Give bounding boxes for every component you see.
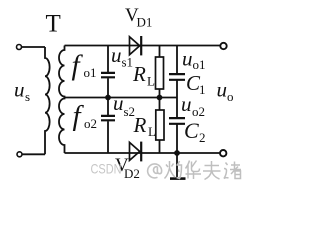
capacitor C1 column wires: [176, 46, 178, 98]
wire top rail: [65, 45, 221, 47]
capacitor us2 plates: [101, 116, 115, 120]
resistor RL top column wire: [159, 46, 161, 98]
capacitor us1 column wires: [107, 46, 109, 98]
svg-text:2: 2: [199, 130, 206, 145]
capacitor C1 plates: [169, 74, 185, 80]
svg-text:T: T: [46, 11, 61, 38]
svg-text:u: u: [14, 78, 25, 102]
diode VD2 triangle: [130, 142, 140, 160]
wire primary top: [22, 46, 45, 48]
terminal top-left: [17, 45, 22, 50]
resistor RL bottom box: [156, 110, 164, 140]
wire primary bottom: [22, 153, 45, 155]
svg-text:u: u: [113, 91, 124, 115]
ground stem: [176, 153, 178, 178]
junction dot center-tap column: [105, 95, 111, 101]
capacitor us1 plates: [101, 73, 115, 77]
diode VD1 cathode bar: [140, 36, 142, 55]
watermark char fu: [203, 161, 221, 180]
svg-text:R: R: [132, 62, 146, 86]
watermark char zhu: [224, 162, 241, 179]
junction dot C2 bottom: [174, 150, 180, 156]
svg-text:o2: o2: [84, 116, 97, 131]
wire bottom rail: [65, 152, 221, 154]
resistor RL top box: [156, 57, 164, 89]
diode VD2 cathode bar: [140, 142, 142, 162]
svg-text:o2: o2: [192, 104, 205, 119]
watermark at-sign: [148, 164, 162, 178]
watermark char hua: [186, 161, 202, 180]
transformer primary winding: [45, 47, 50, 154]
svg-text:o: o: [227, 89, 234, 104]
svg-text:s1: s1: [122, 55, 134, 70]
terminal bottom-left: [17, 152, 22, 157]
svg-text:CSDN: CSDN: [91, 161, 122, 177]
wire center rail: [65, 97, 178, 99]
diode VD1 triangle: [130, 37, 140, 55]
svg-text:L: L: [147, 74, 155, 89]
svg-text:L: L: [148, 124, 156, 139]
svg-text:D1: D1: [137, 15, 153, 30]
svg-text:u: u: [181, 92, 192, 116]
transformer secondary winding fo1: [59, 46, 65, 98]
capacitor us2 column wires: [107, 98, 109, 154]
svg-text:D2: D2: [124, 166, 140, 181]
svg-text:C: C: [184, 118, 199, 143]
watermark char zhuo: [165, 161, 182, 179]
svg-text:o1: o1: [84, 65, 97, 80]
svg-text:1: 1: [199, 82, 206, 97]
terminal output top-right: [220, 43, 226, 49]
svg-text:u: u: [111, 43, 122, 67]
svg-text:s: s: [25, 89, 30, 104]
resistor RL bottom column wire: [159, 98, 161, 154]
transformer secondary winding fo2: [59, 98, 65, 154]
capacitor C2 plates: [169, 118, 185, 124]
terminal output bottom-right: [220, 150, 226, 156]
capacitor C2 column wires: [176, 98, 178, 154]
ground bar: [170, 177, 186, 180]
svg-text:u: u: [182, 47, 193, 71]
svg-text:u: u: [217, 78, 228, 102]
svg-text:R: R: [133, 113, 147, 137]
svg-text:o1: o1: [193, 57, 206, 72]
junction dot RL center: [157, 95, 163, 101]
